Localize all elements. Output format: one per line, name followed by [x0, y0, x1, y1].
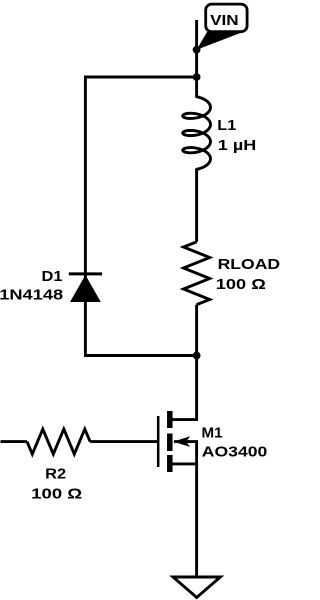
transistor M1 body wire and source vertical: [171, 442, 197, 464]
wire R2 to gate: [90, 440, 158, 443]
svg-text:R2: R2: [45, 465, 66, 482]
wire main vertical from VIN stub down to inductor top: [195, 20, 198, 97]
net flag VIN box: [206, 4, 247, 32]
net flag VIN tail: [197, 32, 243, 50]
diode D1 cathode bar: [69, 272, 102, 275]
resistor RLOAD zigzag: [184, 242, 210, 305]
svg-text:L1: L1: [217, 117, 236, 134]
svg-text:AO3400: AO3400: [202, 443, 267, 460]
resistor R2 left lead: [1, 440, 28, 443]
svg-text:1N4148: 1N4148: [0, 286, 63, 303]
ground symbol: [173, 577, 220, 598]
wire inductor bottom to RLOAD top: [195, 169, 198, 242]
transistor M1 body arrow: [173, 436, 190, 447]
svg-text:VIN: VIN: [210, 12, 239, 29]
inductor L1 coil: [183, 97, 211, 170]
svg-text:100 Ω: 100 Ω: [31, 485, 82, 502]
node VIN tap dot: [193, 46, 201, 54]
transistor M1 gate line: [157, 416, 160, 467]
wire source to ground: [195, 464, 198, 577]
resistor R2 zigzag: [27, 429, 90, 454]
svg-text:RLOAD: RLOAD: [218, 256, 281, 273]
svg-text:100 Ω: 100 Ω: [216, 276, 266, 293]
diode D1 triangle: [70, 275, 101, 302]
node junction dot top rail: [193, 73, 201, 81]
transistor M1 channel bars: [167, 411, 173, 472]
wire left branch: top rail, left vertical, bottom rail: [85, 77, 196, 356]
node junction dot bottom rail: [193, 352, 201, 360]
svg-text:1 µH: 1 µH: [218, 137, 256, 154]
wire RLOAD bottom through junction to MOSFET drain: [171, 305, 197, 420]
svg-text:D1: D1: [42, 268, 63, 285]
svg-text:M1: M1: [202, 425, 223, 442]
